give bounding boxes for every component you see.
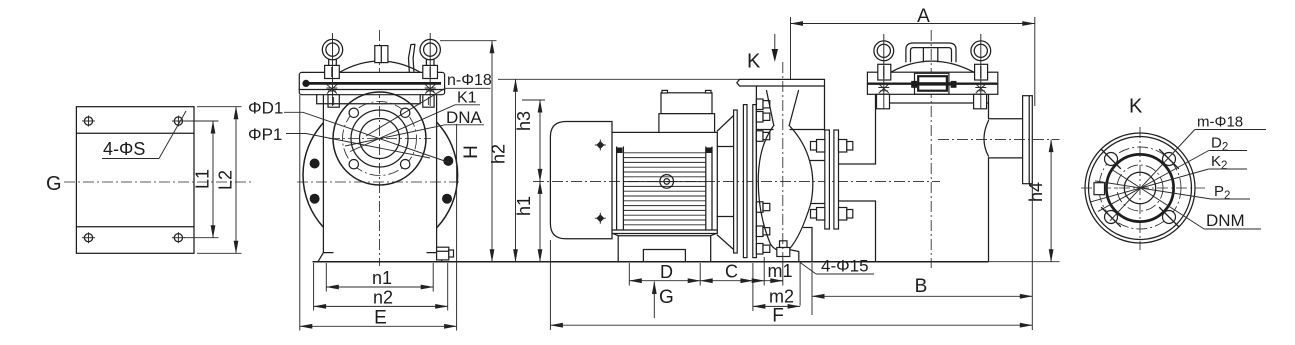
lid clamp bar (thick) [868, 82, 997, 84]
motor body outline [612, 132, 717, 233]
dimension F [550, 306, 1032, 327]
tank rim plate [867, 84, 997, 94]
dimension C [700, 262, 753, 282]
svg-text:4-Φ15: 4-Φ15 [821, 257, 869, 276]
bolt circle K1 (dash-dot) [343, 102, 417, 176]
casing circle left arc [303, 123, 323, 227]
lid handle outer [906, 43, 956, 62]
svg-text:h4: h4 [1026, 182, 1046, 202]
svg-text:G: G [46, 173, 62, 195]
lid bar clamp line (thick) [306, 82, 442, 85]
dimension D [629, 262, 700, 282]
tank left wall [875, 94, 877, 261]
flange bolt 2 [756, 112, 769, 123]
tank centerline [930, 30, 932, 268]
tank top seam [876, 102, 989, 104]
drain boss right [437, 247, 454, 260]
body wall left [322, 95, 324, 253]
bore circle DNA [360, 119, 400, 159]
terminal box base [659, 114, 715, 133]
svg-text:L2: L2 [216, 170, 236, 190]
top plug [375, 46, 388, 63]
bolt hole UR with slash [1160, 150, 1179, 169]
vertical centerline [1139, 127, 1141, 250]
svg-text:h2: h2 [489, 144, 509, 164]
pump pedestal step [789, 228, 812, 262]
motor flange plate [734, 110, 738, 253]
hole top-left [82, 116, 95, 127]
svg-text:H: H [461, 145, 482, 159]
tank right wall [988, 94, 990, 261]
flange outer circle [1085, 133, 1195, 243]
svg-text:h1: h1 [514, 196, 534, 216]
bracket motor to pump [717, 116, 733, 250]
K section arrow [747, 34, 778, 73]
suction flange pump side [825, 130, 830, 229]
C / m2 extension lines [752, 263, 754, 311]
vertical centerline [379, 30, 381, 266]
svg-text:L1: L1 [193, 169, 213, 189]
label phi-D1 with leader [248, 99, 452, 164]
lid clamp center housing [911, 73, 956, 94]
svg-text:n2: n2 [373, 288, 393, 308]
flange bolt 4 [756, 202, 769, 213]
svg-text:F: F [772, 306, 784, 327]
ground line [313, 261, 989, 263]
bolt hole UL with slash [1102, 150, 1121, 169]
dimension h2 [489, 79, 516, 261]
eye bolt right locknut cross [425, 85, 436, 94]
label P2 with leader [1095, 181, 1250, 202]
suction flange outer circle [333, 92, 426, 185]
pilot circle (dash-dot) [1117, 165, 1163, 211]
F left extension [549, 240, 551, 330]
hole bottom-right [172, 232, 185, 243]
lid handle inner [911, 48, 952, 62]
flange bolt hole UR [401, 108, 410, 117]
lid bar [299, 72, 444, 94]
lid handle grips [923, 48, 937, 62]
svg-text:D: D [660, 262, 673, 282]
bolt hole LL with slash [1102, 208, 1121, 227]
lever top right [409, 44, 415, 72]
svg-text:B: B [915, 276, 928, 297]
tank nozzle tube [839, 164, 876, 201]
dimension h3 [514, 100, 545, 181]
n1 extension lines [325, 263, 327, 292]
G drain arrow [654, 282, 673, 319]
pump top plate [737, 79, 825, 86]
svg-text:A: A [917, 6, 930, 27]
tank eye bolt right [971, 41, 991, 109]
ground extension to h4 [989, 261, 1060, 263]
outlet pipe root curve [984, 121, 989, 157]
terminal box [661, 90, 712, 113]
svg-text:E: E [374, 308, 387, 329]
horizontal centerline [1081, 187, 1205, 189]
flange bolt 3 [756, 131, 769, 142]
label 4-phi-S [102, 111, 186, 159]
label DNA with leader [345, 108, 484, 146]
dimension m2 [753, 287, 800, 307]
motor cooling fins [623, 153, 705, 225]
flange bolt 6 [756, 244, 769, 255]
dimension E [300, 308, 457, 329]
suction flange tank side [834, 130, 839, 229]
tank eye bolt rods [883, 34, 885, 109]
svg-text:n1: n1 [372, 268, 392, 288]
eye bolt rods front [332, 33, 334, 106]
label n-phi18 with leader [366, 72, 492, 136]
svg-text:4-ΦS: 4-ΦS [103, 139, 145, 159]
shaft centerline [533, 180, 940, 182]
G axis centerline [297, 181, 459, 183]
dimension L1 [184, 121, 219, 238]
motor end bell right [706, 147, 712, 230]
svg-text:m2: m2 [769, 287, 794, 307]
svg-text:m1: m1 [767, 261, 792, 281]
key tab left [1094, 183, 1105, 195]
fan cover screw mark top [595, 140, 606, 151]
eye bolt left bracket [328, 95, 339, 108]
lid bar left pin dot [302, 80, 309, 87]
bolt circle K2 (dash-dot) [1099, 147, 1181, 229]
F / B right extension [1031, 185, 1033, 330]
dimension h1 [514, 181, 540, 261]
shaft hub [660, 175, 674, 189]
E extension line left [299, 95, 301, 331]
bore circle [1124, 172, 1155, 203]
flange outer circle inner ring [1089, 137, 1192, 240]
bolt hole LR with slash [1160, 208, 1179, 227]
hole top-right [172, 116, 185, 127]
svg-text:ΦP1: ΦP1 [248, 125, 282, 144]
h2 top extension [498, 78, 740, 80]
hole bottom-left [82, 232, 95, 243]
svg-text:n-Φ18: n-Φ18 [447, 72, 492, 89]
plate lower edge line [76, 226, 194, 228]
tank lid plate [867, 72, 997, 84]
label D2 with leader [1098, 135, 1247, 212]
outlet pipe [989, 119, 1023, 158]
dimension n2 [314, 288, 448, 308]
drain plug [777, 241, 790, 257]
H top extension [440, 40, 497, 42]
chamber floor lines [756, 129, 824, 131]
dimension L2 [197, 107, 242, 254]
flange bolt hole LL [349, 160, 358, 169]
dimension n1 [326, 268, 433, 288]
svg-text:K: K [747, 51, 761, 73]
E extension line right [456, 124, 458, 331]
end bell tab left [617, 148, 623, 154]
flange bolt hole UL [349, 108, 358, 117]
volute nozzle right side [810, 161, 825, 204]
label phi-P1 with leader [248, 125, 430, 158]
casing bolt dots [310, 159, 320, 169]
casing flange plate [753, 105, 757, 258]
foot right [427, 253, 442, 262]
B / m2 extension line [799, 263, 801, 306]
fan cover screw mark bottom [595, 213, 606, 224]
flange bolt 5 [756, 226, 769, 237]
body wall right [436, 95, 438, 253]
pump backplate [743, 105, 747, 258]
svg-text:DNA: DNA [446, 108, 483, 127]
volute bottom outline [779, 250, 783, 253]
plate upper edge line [76, 132, 194, 134]
label m-phi18 with leader [1110, 114, 1266, 221]
svg-text:G: G [659, 287, 674, 308]
flange bolt hole LR [401, 160, 410, 169]
pump casing upper right wall [824, 86, 826, 130]
pump casing left wall [755, 86, 757, 240]
foot left [318, 253, 333, 262]
label 4-phi15 [800, 257, 875, 276]
raised face circle [351, 110, 408, 167]
dimension m1 [753, 261, 793, 281]
eye bolt right [420, 39, 440, 78]
label DNM with leader [1112, 170, 1261, 230]
dimension A [791, 6, 1035, 106]
end bell tab right [706, 148, 712, 154]
dimension h4 [1026, 140, 1051, 262]
label K1 with leader [350, 90, 480, 152]
outlet flange plate [1023, 96, 1033, 184]
lid dome arc [339, 61, 420, 72]
svg-text:K1: K1 [457, 90, 477, 107]
eye bolt left locknut cross [326, 85, 337, 94]
volute bulb outline [758, 126, 811, 252]
eye bolt right bracket [423, 95, 434, 108]
svg-text:C: C [725, 262, 738, 282]
svg-text:m-Φ18: m-Φ18 [1197, 114, 1243, 131]
svg-text:DNM: DNM [1206, 211, 1245, 230]
lid bar lower line [299, 89, 444, 91]
dimension H [461, 41, 492, 262]
n2 extension lines [313, 263, 315, 311]
eye bolt left [322, 39, 342, 78]
motor end bell left [617, 147, 624, 230]
D extension lines [628, 263, 630, 286]
centerline G [46, 173, 252, 195]
flange horizontal centerline [329, 138, 431, 140]
flange stud bottom [811, 208, 853, 221]
base plate outline [76, 107, 194, 254]
svg-text:ΦD1: ΦD1 [248, 99, 283, 118]
motor fan cover [550, 122, 612, 239]
motor feet [613, 234, 716, 262]
flange stud top [811, 140, 853, 153]
tank lid dome [891, 61, 974, 72]
svg-text:h3: h3 [514, 111, 534, 131]
label K2 with leader [1090, 153, 1247, 202]
casing circle right arc [437, 122, 458, 228]
K section centerline [782, 62, 784, 258]
svg-text:K: K [1129, 96, 1143, 118]
raised face circle (thick) [1106, 154, 1173, 221]
tank eye bolt left [874, 41, 894, 109]
flange bolt 1 [756, 99, 769, 110]
outlet centerline [938, 139, 1060, 141]
dimension B [812, 276, 1032, 297]
lid lower plate [317, 95, 421, 104]
suction cone neck [767, 91, 799, 126]
